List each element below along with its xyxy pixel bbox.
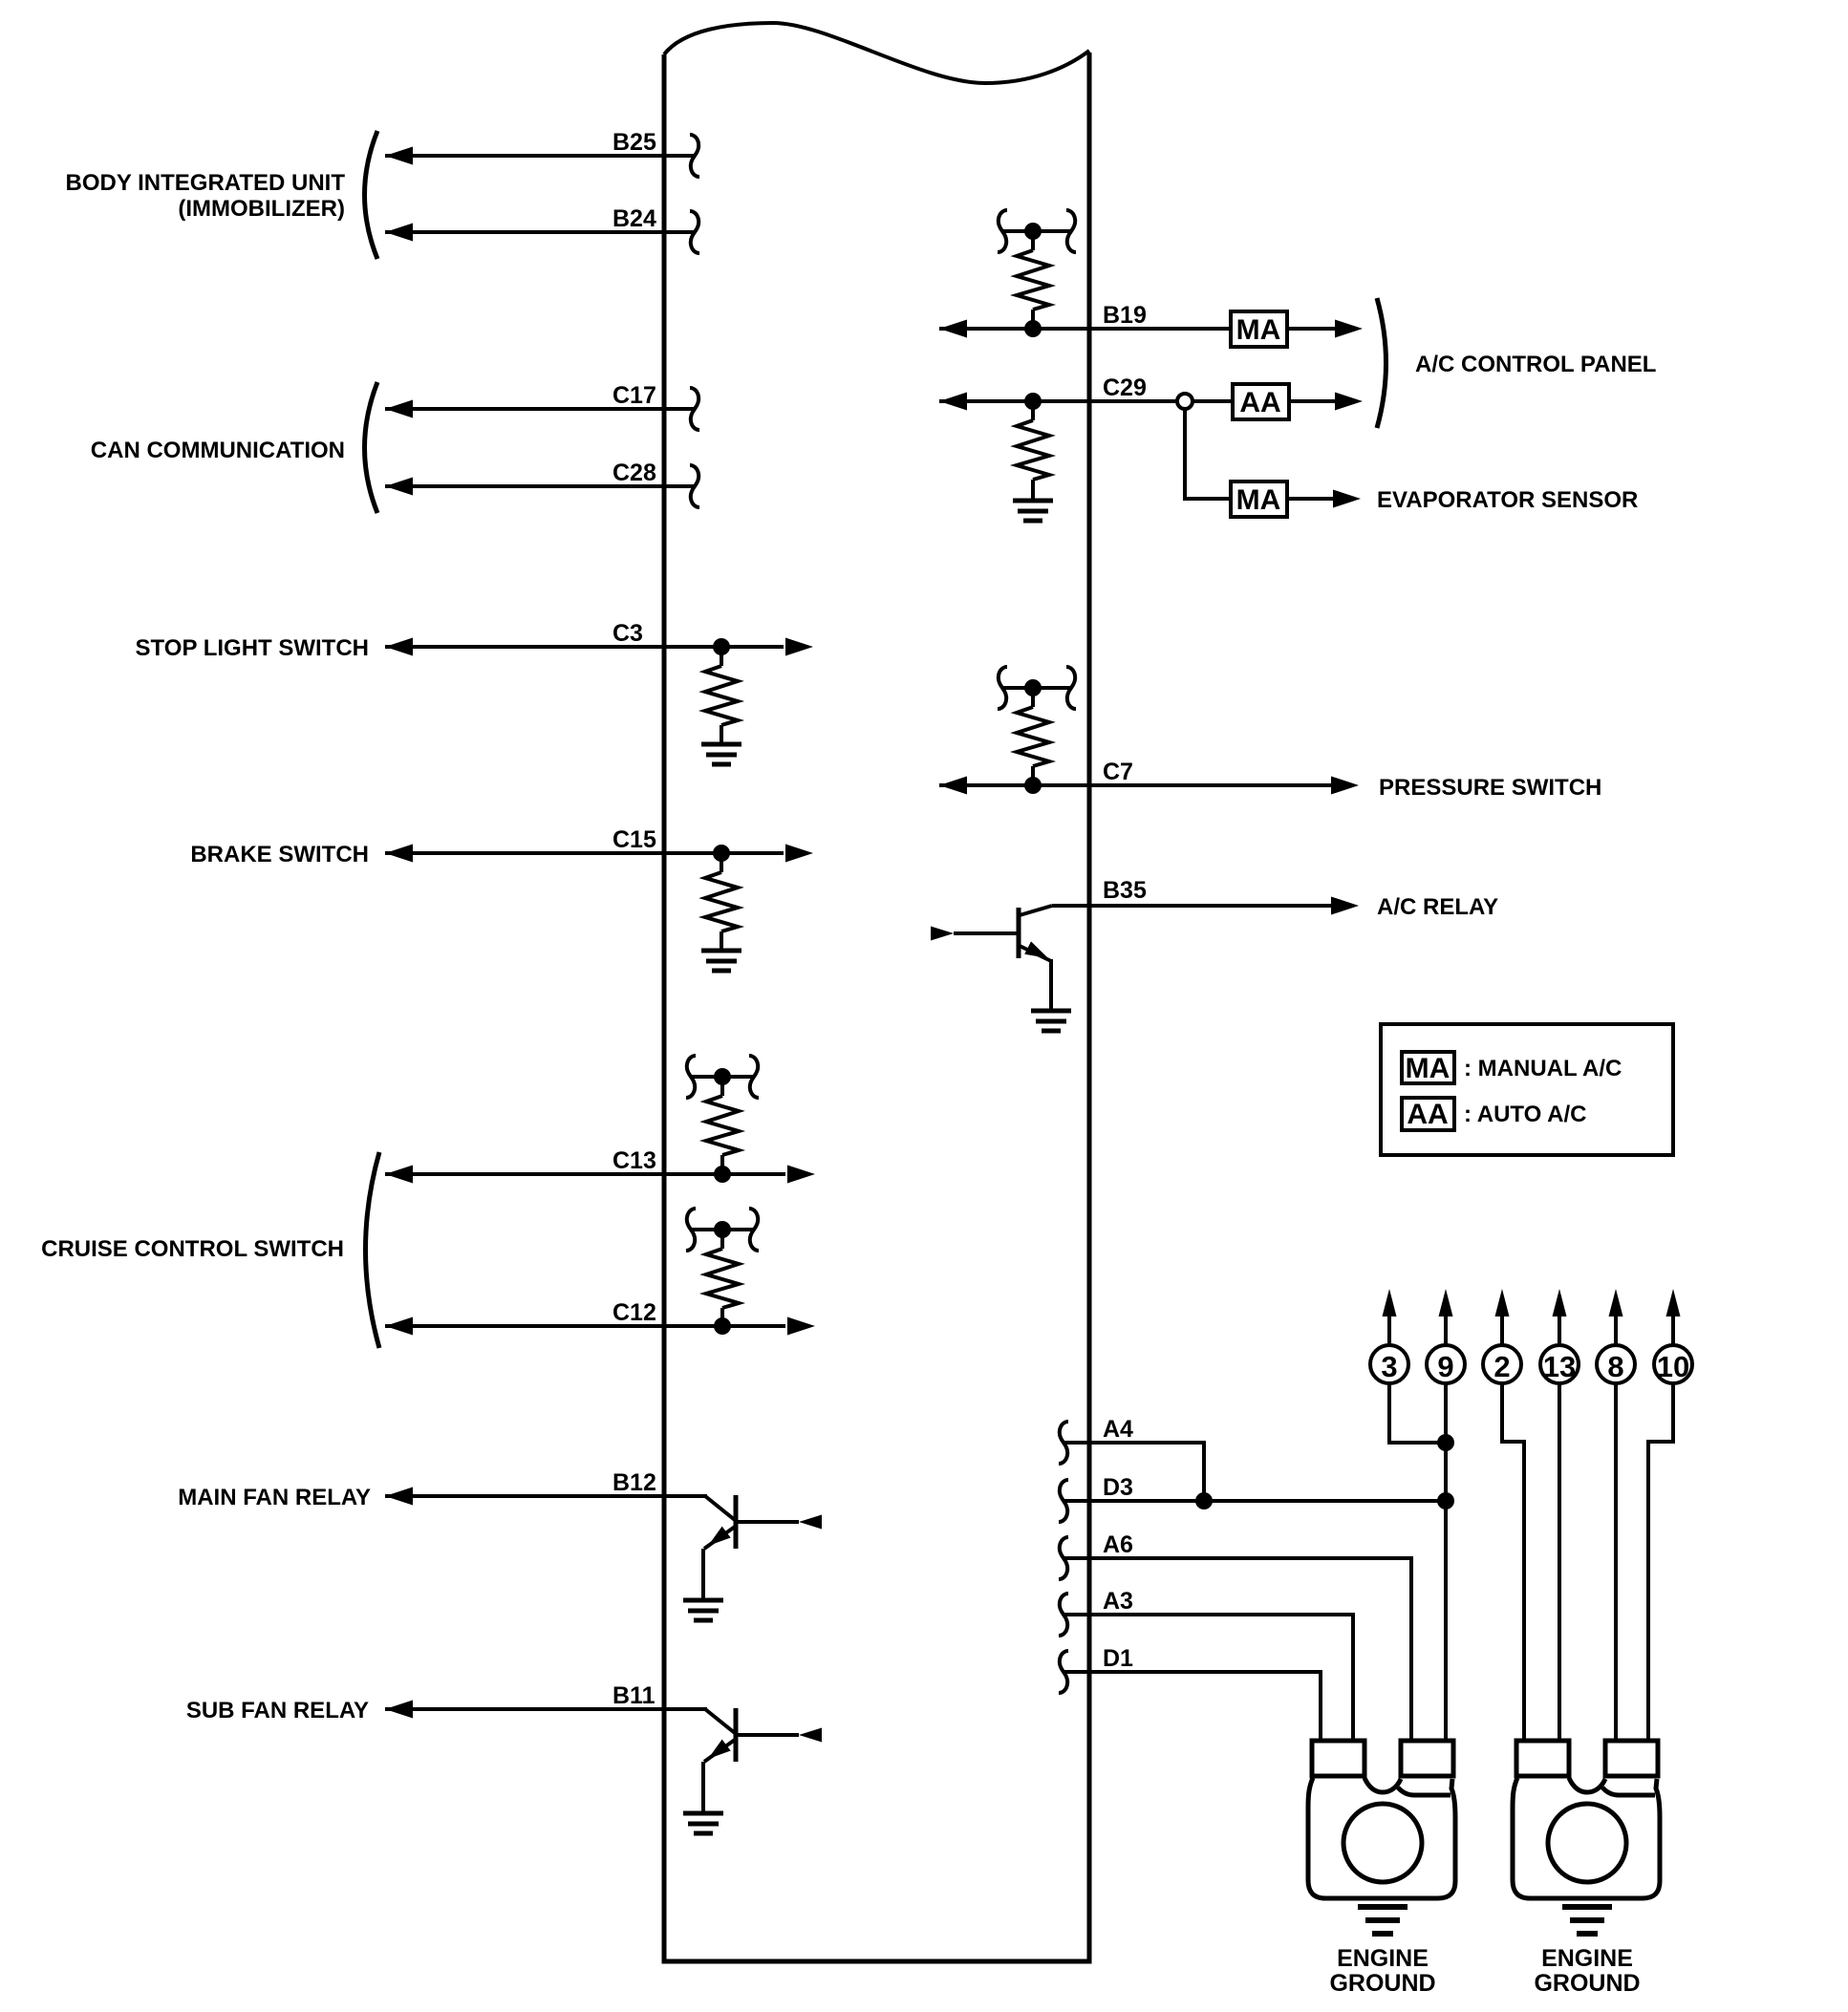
pull-up supply bar for C7 bbox=[1002, 679, 1071, 696]
svg-text:10: 10 bbox=[1657, 1350, 1689, 1383]
pin B35 wire bbox=[1052, 877, 1359, 915]
pin A3 wire bbox=[1064, 1588, 1353, 1741]
junction dot C29 bbox=[1024, 393, 1042, 410]
svg-text:3: 3 bbox=[1381, 1350, 1397, 1383]
wire pin 3 to node bbox=[1389, 1383, 1444, 1443]
svg-text:ENGINE: ENGINE bbox=[1337, 1945, 1429, 1972]
wire pin 2 to engine ground bbox=[1502, 1383, 1524, 1741]
pin B25 wire bbox=[385, 129, 694, 165]
node open circle on C29 bbox=[1177, 394, 1193, 409]
svg-text:C28: C28 bbox=[612, 460, 656, 486]
svg-text:B35: B35 bbox=[1103, 877, 1147, 904]
svg-text:C13: C13 bbox=[612, 1147, 656, 1174]
junction dot C13 bbox=[714, 1166, 731, 1183]
supply bar right squiggle bbox=[1066, 210, 1076, 252]
pin C28 wire bbox=[385, 460, 694, 496]
label BODY INTEGRATED UNIT bbox=[66, 170, 346, 222]
brace A/C CONTROL PANEL bbox=[1377, 298, 1386, 428]
svg-text:GROUND: GROUND bbox=[1329, 1970, 1435, 1997]
ground below C3 resistor bbox=[701, 744, 741, 764]
pin C3 wire bbox=[385, 620, 813, 656]
junction dot D3/A4 bbox=[1195, 1492, 1213, 1509]
pin D3 wire bbox=[1064, 1474, 1446, 1501]
transistor Q2 main fan relay driver bbox=[703, 1495, 822, 1598]
resistor pull-down C3 bbox=[705, 647, 738, 744]
MA tag box evaporator bbox=[1231, 482, 1287, 517]
pin C28 break squiggle bbox=[690, 465, 699, 507]
resistor pull-up C12 bbox=[706, 1230, 739, 1326]
svg-text:(IMMOBILIZER): (IMMOBILIZER) bbox=[178, 196, 345, 222]
ground below Q3 emitter bbox=[683, 1813, 723, 1833]
engine ground terminal 2 bbox=[1513, 1741, 1660, 1898]
pin B25 break squiggle bbox=[690, 135, 699, 177]
ground symbol terminal 1 bbox=[1358, 1907, 1407, 1934]
brace CAN COMMUNICATION bbox=[365, 382, 378, 513]
connector pin 10 bbox=[1654, 1289, 1692, 1383]
svg-text:: AUTO A/C: : AUTO A/C bbox=[1464, 1102, 1586, 1127]
pin A4 break squiggle bbox=[1059, 1422, 1068, 1464]
svg-text:2: 2 bbox=[1493, 1350, 1510, 1383]
transistor Q3 sub fan relay driver bbox=[703, 1708, 822, 1811]
svg-text:A/C CONTROL PANEL: A/C CONTROL PANEL bbox=[1415, 352, 1656, 377]
svg-text:B11: B11 bbox=[612, 1682, 655, 1709]
svg-text:B25: B25 bbox=[612, 129, 656, 156]
svg-text:ENGINE: ENGINE bbox=[1541, 1945, 1633, 1972]
svg-text:MA: MA bbox=[1406, 1053, 1450, 1084]
svg-text:C29: C29 bbox=[1103, 375, 1147, 401]
svg-text:BRAKE SWITCH: BRAKE SWITCH bbox=[190, 842, 369, 867]
pin A3 break squiggle bbox=[1059, 1594, 1068, 1636]
pin A4 wire bbox=[1064, 1416, 1204, 1501]
svg-text:BODY INTEGRATED UNIT: BODY INTEGRATED UNIT bbox=[66, 170, 346, 196]
legend box bbox=[1381, 1024, 1673, 1155]
junction dot B19 bbox=[1024, 320, 1042, 337]
svg-text:D3: D3 bbox=[1103, 1474, 1133, 1501]
supply bar left squiggle C7 bbox=[998, 667, 1007, 709]
label ENGINE GROUND 2 bbox=[1534, 1945, 1640, 1997]
junction dot D3/pin9 bbox=[1437, 1492, 1454, 1509]
svg-text:B24: B24 bbox=[612, 205, 656, 232]
pin C17 break squiggle bbox=[690, 388, 699, 430]
pin D3 break squiggle bbox=[1059, 1480, 1068, 1522]
svg-text:C7: C7 bbox=[1103, 759, 1133, 785]
svg-text:PRESSURE SWITCH: PRESSURE SWITCH bbox=[1379, 775, 1601, 801]
connector pin 8 bbox=[1597, 1289, 1635, 1383]
connector pin 2 bbox=[1483, 1289, 1521, 1383]
pin C15 wire bbox=[385, 826, 813, 863]
svg-text:MAIN FAN RELAY: MAIN FAN RELAY bbox=[178, 1485, 371, 1510]
junction dot pin3/pin9 bbox=[1437, 1434, 1454, 1451]
junction dot C15 bbox=[713, 845, 730, 862]
ECM block outline bbox=[664, 23, 1089, 1961]
resistor pull-up C13 bbox=[706, 1077, 739, 1174]
pin B24 wire bbox=[385, 205, 694, 242]
svg-text:8: 8 bbox=[1607, 1350, 1623, 1383]
svg-text:D1: D1 bbox=[1103, 1645, 1133, 1672]
connector pin 9 bbox=[1427, 1289, 1465, 1383]
svg-text:AA: AA bbox=[1239, 387, 1280, 418]
svg-text:A4: A4 bbox=[1103, 1416, 1133, 1443]
supply bar left squiggle C12 bbox=[686, 1209, 696, 1251]
wire pin 9 to engine ground bbox=[1444, 1383, 1448, 1741]
connector pin 3 bbox=[1370, 1289, 1408, 1383]
MA tag box on B19 bbox=[1231, 311, 1287, 347]
resistor pull-up C7 bbox=[1017, 688, 1049, 785]
brace CRUISE CONTROL SWITCH bbox=[366, 1152, 380, 1348]
brace BODY INTEGRATED UNIT bbox=[365, 131, 378, 259]
pull-up supply bar for B19 bbox=[1002, 223, 1071, 240]
svg-text:CRUISE CONTROL SWITCH: CRUISE CONTROL SWITCH bbox=[41, 1236, 344, 1262]
legend MA tag bbox=[1402, 1052, 1622, 1084]
supply bar right squiggle C7 bbox=[1066, 667, 1076, 709]
pull-up supply bar for C13 bbox=[691, 1068, 754, 1085]
pin A6 wire bbox=[1064, 1531, 1411, 1741]
junction dot C3 bbox=[713, 638, 730, 655]
AA tag box on C29 bbox=[1233, 384, 1289, 419]
ground below Q2 emitter bbox=[683, 1600, 723, 1620]
svg-text:STOP LIGHT SWITCH: STOP LIGHT SWITCH bbox=[136, 635, 369, 661]
svg-text:MA: MA bbox=[1236, 484, 1281, 516]
supply bar right squiggle C12 bbox=[749, 1209, 759, 1251]
svg-text:A6: A6 bbox=[1103, 1531, 1133, 1558]
pin C29 wire bbox=[939, 375, 1233, 411]
ground symbol terminal 2 bbox=[1562, 1907, 1612, 1934]
svg-text:B19: B19 bbox=[1103, 302, 1147, 329]
svg-text:EVAPORATOR SENSOR: EVAPORATOR SENSOR bbox=[1377, 487, 1638, 513]
pin B24 break squiggle bbox=[690, 211, 699, 253]
supply bar right squiggle C13 bbox=[749, 1056, 759, 1098]
pull-up supply bar for C12 bbox=[691, 1221, 754, 1238]
pin B19 wire bbox=[939, 302, 1231, 338]
resistor pull-down C15 bbox=[705, 853, 738, 951]
pin C17 wire bbox=[385, 382, 694, 418]
svg-text:A3: A3 bbox=[1103, 1588, 1133, 1615]
connector pin 13 bbox=[1540, 1289, 1579, 1383]
pin D1 break squiggle bbox=[1059, 1651, 1068, 1693]
wire pin 13 to engine ground bbox=[1558, 1383, 1561, 1741]
pin B11 wire bbox=[385, 1682, 707, 1719]
pin A6 break squiggle bbox=[1059, 1537, 1068, 1579]
transistor Q1 A/C relay driver bbox=[931, 906, 1052, 1011]
svg-text:GROUND: GROUND bbox=[1534, 1970, 1640, 1997]
resistor pull-up B19 bbox=[1017, 231, 1049, 329]
engine ground terminal 1 bbox=[1308, 1741, 1455, 1898]
label ENGINE GROUND 1 bbox=[1329, 1945, 1435, 1997]
wire pin 8 to engine ground bbox=[1614, 1383, 1618, 1741]
wire from C29 node to evaporator MA box bbox=[1185, 407, 1231, 499]
svg-text:B12: B12 bbox=[612, 1469, 656, 1496]
svg-text:C17: C17 bbox=[612, 382, 656, 409]
ground below Q1 emitter bbox=[1031, 1011, 1071, 1031]
pin C13 wire bbox=[385, 1147, 815, 1184]
legend AA tag bbox=[1402, 1098, 1586, 1130]
svg-text:9: 9 bbox=[1437, 1350, 1453, 1383]
pin D1 wire bbox=[1064, 1645, 1321, 1741]
pin C12 wire bbox=[385, 1299, 815, 1336]
wire pin 10 to engine ground bbox=[1648, 1383, 1673, 1741]
svg-text:C12: C12 bbox=[612, 1299, 656, 1326]
ground below C15 resistor bbox=[701, 951, 741, 971]
junction dot C12 bbox=[714, 1317, 731, 1335]
C29 arrow to A/C control panel bbox=[1289, 393, 1363, 411]
svg-text:C15: C15 bbox=[612, 826, 656, 853]
arrow to evaporator sensor bbox=[1287, 490, 1361, 508]
svg-text:AA: AA bbox=[1407, 1099, 1448, 1130]
ground below C29 resistor bbox=[1013, 501, 1053, 521]
svg-text:MA: MA bbox=[1236, 314, 1281, 346]
resistor pull-down C29 bbox=[1017, 401, 1049, 501]
svg-text:: MANUAL A/C: : MANUAL A/C bbox=[1464, 1056, 1622, 1081]
svg-text:13: 13 bbox=[1543, 1350, 1576, 1383]
supply bar left squiggle bbox=[998, 210, 1007, 252]
svg-text:SUB FAN RELAY: SUB FAN RELAY bbox=[186, 1698, 369, 1723]
svg-text:CAN COMMUNICATION: CAN COMMUNICATION bbox=[91, 438, 345, 463]
svg-text:A/C RELAY: A/C RELAY bbox=[1377, 894, 1498, 920]
supply bar left squiggle C13 bbox=[686, 1056, 696, 1098]
pin C7 wire bbox=[939, 759, 1359, 795]
svg-text:C3: C3 bbox=[612, 620, 643, 647]
junction dot C7 bbox=[1024, 777, 1042, 794]
B19 arrow to A/C control panel bbox=[1287, 320, 1363, 338]
pin B12 wire bbox=[385, 1469, 707, 1506]
